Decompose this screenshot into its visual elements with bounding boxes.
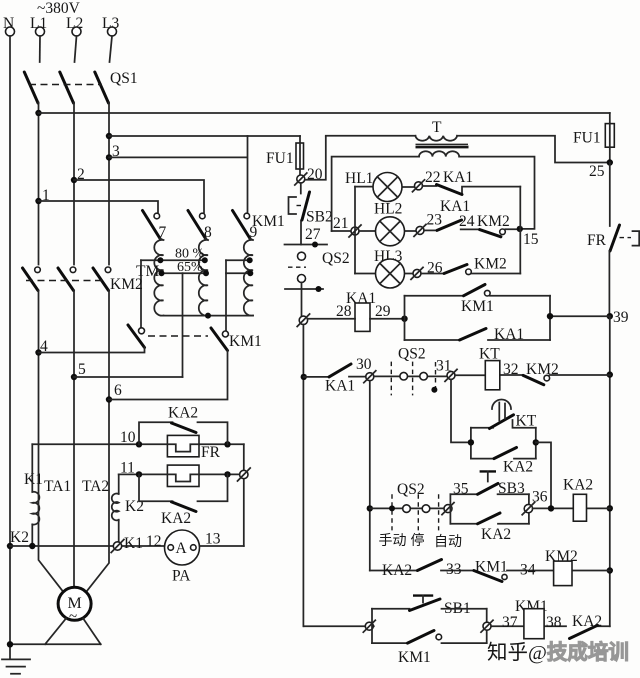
svg-text:停: 停 bbox=[411, 532, 425, 549]
wire L3 drop to QS1 bbox=[110, 36, 113, 62]
wire node 5 bbox=[74, 376, 183, 378]
wire L1 rail lower bbox=[39, 291, 64, 592]
switch QS1 pole 3 bbox=[95, 72, 109, 103]
svg-text:FR: FR bbox=[201, 444, 221, 461]
button SB2 bbox=[300, 183, 302, 245]
svg-text:KA2: KA2 bbox=[503, 459, 533, 476]
svg-text:KA2: KA2 bbox=[563, 477, 593, 494]
svg-text:24: 24 bbox=[459, 213, 475, 230]
wire N rail bbox=[9, 36, 11, 658]
start box SB1/KM1 bbox=[372, 609, 487, 643]
terminal K1 bbox=[113, 542, 121, 550]
node 39 bbox=[607, 313, 613, 319]
tap 80% line winding 9 bbox=[226, 259, 250, 261]
wire tap drop mid to node 5 bbox=[182, 273, 184, 377]
contactor KM1 blade right bbox=[222, 331, 228, 337]
wire T secondary left to node 21 bbox=[332, 157, 419, 231]
svg-text:33: 33 bbox=[446, 561, 462, 578]
svg-text:KA1: KA1 bbox=[325, 378, 355, 395]
svg-text:FU1: FU1 bbox=[573, 130, 601, 147]
svg-text:KA2: KA2 bbox=[481, 526, 511, 543]
node 25 bbox=[607, 159, 613, 165]
terminal 22 bbox=[415, 182, 423, 190]
contactor KM2 pole 1 bbox=[35, 267, 41, 273]
svg-text:12: 12 bbox=[146, 533, 162, 550]
svg-text:HL2: HL2 bbox=[374, 201, 402, 218]
wire right rail upper bbox=[609, 163, 611, 227]
wire node 3 bbox=[109, 136, 248, 213]
contact blade 9 KM1 bbox=[244, 213, 250, 219]
wire K2 ammeter row bbox=[7, 543, 13, 549]
svg-text:SB2: SB2 bbox=[306, 209, 333, 226]
wire L2 rail bbox=[73, 103, 75, 265]
row E wire bbox=[304, 625, 610, 627]
svg-text:TA2: TA2 bbox=[82, 478, 109, 495]
motor pedestal bbox=[10, 619, 101, 645]
terminal row E right bbox=[483, 622, 491, 630]
svg-text:5: 5 bbox=[78, 361, 86, 378]
heater FR element 1 bbox=[167, 435, 199, 456]
svg-text:38: 38 bbox=[546, 614, 562, 631]
contact blade 7 bbox=[154, 213, 160, 219]
terminal at 35 left bbox=[444, 505, 452, 513]
svg-text:QS2: QS2 bbox=[397, 481, 425, 498]
row C wire bbox=[370, 507, 444, 509]
KM1 linkage dashed bbox=[148, 335, 208, 337]
contactor KM1 blade left bbox=[139, 328, 145, 334]
svg-text:K1: K1 bbox=[24, 471, 43, 488]
svg-text:K2: K2 bbox=[10, 529, 29, 546]
wire node 6 bbox=[109, 351, 228, 400]
svg-text:13: 13 bbox=[205, 531, 221, 548]
svg-text:KM2: KM2 bbox=[110, 276, 143, 293]
holding box KM1/KA1 bbox=[405, 296, 610, 340]
svg-text:37: 37 bbox=[502, 614, 518, 631]
svg-text:A: A bbox=[176, 540, 188, 557]
tap 65% line winding 9 bbox=[226, 272, 250, 274]
wire tap drop left bbox=[140, 260, 142, 328]
svg-text:KA2: KA2 bbox=[382, 562, 412, 579]
svg-text:KM1: KM1 bbox=[229, 333, 262, 350]
svg-text:T: T bbox=[432, 119, 442, 136]
contactor KM2 pole 3 bbox=[105, 267, 111, 273]
svg-text:25: 25 bbox=[589, 163, 605, 180]
wire L2 rail lower bbox=[73, 291, 75, 588]
wire L2 drop to QS1 bbox=[75, 36, 77, 62]
svg-text:QS2: QS2 bbox=[322, 250, 350, 267]
timer box KT/KA2 bbox=[471, 428, 536, 459]
contact blade 8 bbox=[200, 213, 206, 219]
QS1 linkage dashed bbox=[29, 84, 102, 86]
terminal row E left bbox=[365, 622, 373, 630]
terminal 30 bbox=[366, 373, 374, 381]
svg-text:39: 39 bbox=[613, 309, 629, 326]
wire 20 to T primary bbox=[305, 137, 326, 180]
transformer TM winding 8 bbox=[199, 239, 208, 316]
switch QS1 pole 2 bbox=[60, 72, 74, 103]
terminal 23 bbox=[416, 226, 424, 234]
node 15 bbox=[517, 226, 523, 232]
svg-text:~: ~ bbox=[69, 609, 77, 625]
svg-text:手动: 手动 bbox=[379, 533, 407, 549]
wire right rail lower bbox=[609, 316, 611, 626]
svg-text:32: 32 bbox=[503, 361, 519, 378]
node junction L3 at 136 bbox=[106, 133, 112, 139]
svg-text:K1: K1 bbox=[124, 535, 143, 552]
svg-text:KM1: KM1 bbox=[461, 298, 494, 315]
svg-text:KA2: KA2 bbox=[161, 510, 191, 527]
wire KA1 coil to holding box bbox=[401, 316, 407, 322]
wire L3 to FU1 left bbox=[109, 135, 300, 137]
wire L1 rail bbox=[38, 103, 40, 265]
wire node 1 bbox=[39, 201, 159, 213]
svg-text:QS1: QS1 bbox=[110, 70, 138, 87]
terminal 26 bbox=[413, 269, 421, 277]
KM2 linkage dashed bbox=[26, 280, 106, 282]
svg-text:KA1: KA1 bbox=[443, 169, 473, 186]
start box SB3/KA2 bbox=[450, 494, 529, 524]
row D wire bbox=[370, 570, 610, 572]
row B wire bbox=[304, 376, 366, 378]
wire top feed to FU1 right bbox=[39, 112, 610, 114]
wire L3 rail lower bbox=[87, 291, 110, 592]
svg-text:PA: PA bbox=[172, 568, 191, 585]
svg-text:FU1: FU1 bbox=[266, 150, 294, 167]
svg-text:15: 15 bbox=[523, 231, 539, 248]
svg-text:QS2: QS2 bbox=[398, 346, 426, 363]
wire TM star bus bbox=[164, 315, 254, 317]
heater FR element 2 bbox=[167, 465, 199, 486]
terminal 11-13 riser bbox=[243, 444, 245, 546]
svg-text:KM2: KM2 bbox=[474, 256, 507, 273]
svg-text:22: 22 bbox=[425, 169, 441, 186]
svg-text:HL1: HL1 bbox=[345, 170, 373, 187]
svg-text:29: 29 bbox=[375, 303, 391, 320]
svg-text:KM2: KM2 bbox=[477, 213, 510, 230]
svg-text:TA1: TA1 bbox=[44, 478, 71, 495]
motor M bbox=[58, 587, 91, 620]
wire L3 rail bbox=[108, 103, 110, 265]
wire T primary right to node 25 bbox=[457, 136, 610, 163]
svg-text:36: 36 bbox=[532, 489, 548, 506]
terminal 20 bbox=[297, 175, 305, 183]
wire left control rail bbox=[302, 325, 304, 627]
wire node 4 bbox=[39, 348, 145, 353]
svg-text:KA2: KA2 bbox=[572, 613, 602, 630]
transformer TM winding 9 bbox=[244, 239, 253, 316]
svg-text:KM1: KM1 bbox=[398, 649, 431, 666]
transformer TM winding 7 bbox=[154, 239, 163, 316]
svg-text:27: 27 bbox=[305, 226, 321, 243]
lamp branch riser bbox=[354, 187, 356, 274]
wire node 2 bbox=[74, 180, 204, 213]
svg-text:KA2: KA2 bbox=[168, 405, 198, 422]
wire T secondary right to node 15 bbox=[459, 157, 534, 229]
wire rail 30 drop bbox=[369, 381, 371, 571]
wire T primary left bbox=[326, 135, 416, 137]
svg-text:34: 34 bbox=[520, 562, 536, 579]
contactor KM2 pole 2 bbox=[70, 267, 76, 273]
wire 31 drop to KT box bbox=[451, 379, 471, 442]
lamp block right rail bbox=[519, 187, 521, 274]
wire L1 drop to QS1 bbox=[39, 36, 41, 62]
wire tap drop right bbox=[225, 260, 227, 331]
ground bbox=[2, 659, 30, 673]
node junction L1 top feed bbox=[35, 110, 41, 116]
svg-text:知乎@技成培训: 知乎@技成培训 bbox=[487, 640, 629, 664]
switch QS1 pole 1 bbox=[24, 72, 38, 103]
terminal 28 bbox=[299, 316, 307, 324]
ammeter PA bbox=[165, 530, 200, 565]
wire timer box to row C bbox=[536, 442, 551, 508]
terminal 36 bbox=[524, 504, 532, 512]
svg-text:FR: FR bbox=[587, 232, 607, 249]
svg-text:21: 21 bbox=[333, 215, 349, 232]
svg-text:30: 30 bbox=[356, 356, 372, 373]
svg-text:自动: 自动 bbox=[434, 534, 462, 550]
svg-text:6: 6 bbox=[114, 382, 122, 399]
svg-text:KM1: KM1 bbox=[252, 213, 285, 230]
